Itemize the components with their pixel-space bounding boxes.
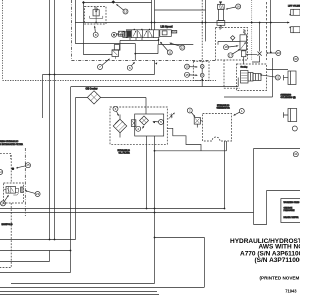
node dot bus — [251, 22, 253, 24]
wire dashed left boundary vertical — [2, 0, 4, 80]
wire cascade y272.8 — [0, 272, 71, 274]
wire dashed x11.2 — [10, 155, 12, 183]
wire bus y208.8 — [0, 208, 225, 210]
node dot — [158, 39, 160, 41]
node dot — [259, 22, 261, 24]
wire x75 down — [75, 98, 77, 240]
wire bottom y283.5 — [11, 283, 155, 285]
balloon 8 — [93, 26, 98, 38]
balloon 12 — [169, 43, 185, 51]
svg-text:RESS HYDRAULIC: RESS HYDRAULIC — [0, 140, 19, 143]
wire check valve stem — [201, 68, 203, 86]
svg-text:17: 17 — [229, 53, 233, 57]
balloon 16 — [226, 4, 241, 10]
svg-text:24: 24 — [1, 201, 5, 205]
loader valve symbol — [4, 187, 19, 196]
wire dash-dot boundary x71 — [71, 0, 73, 61]
balloon 13 — [116, 4, 128, 14]
wire dashed boundary horizontal y80 — [3, 80, 217, 82]
pump check valve — [140, 116, 149, 125]
svg-text:(S/N A3P711000: (S/N A3P711000 — [255, 257, 301, 264]
wire cascade y239 left — [0, 239, 76, 241]
balloon 15 — [185, 72, 198, 77]
steering cartridge valve — [241, 71, 262, 84]
pump inlet element — [131, 120, 136, 127]
lift speed section — [160, 26, 177, 37]
pump box — [135, 114, 164, 136]
wire vertical x83 corner y54 — [84, 3, 113, 55]
svg-text:Steering: Steering — [241, 66, 248, 69]
gauge symbol — [112, 32, 129, 38]
component 23 target — [21, 187, 23, 192]
wire corner y61.3 — [154, 61, 156, 75]
wire valve drains — [130, 38, 142, 41]
balloon 23 — [25, 190, 40, 196]
relief valve symbol — [90, 7, 103, 23]
balloon 1 — [233, 109, 244, 116]
wire box corner x75 top — [76, 0, 136, 44]
svg-text:GENERATOR: GENERATOR — [217, 107, 231, 110]
svg-text:21: 21 — [276, 76, 280, 80]
svg-text:OIL FILTER: OIL FILTER — [119, 152, 131, 154]
wire dashed x224 down — [223, 60, 225, 88]
svg-text:71943: 71943 — [285, 289, 297, 294]
wire y74.4 — [43, 74, 155, 76]
svg-text:12: 12 — [181, 46, 185, 50]
svg-text:22: 22 — [0, 170, 2, 174]
oil cooler symbol — [87, 91, 100, 104]
valve E lower body — [242, 51, 246, 57]
svg-text:DRAIN / RETUR: DRAIN / RETUR — [284, 216, 299, 219]
wire dash-dot x25.3 — [24, 148, 26, 216]
wire x70 down — [70, 87, 72, 273]
wire pump down legs — [147, 136, 155, 284]
svg-text:WORKING PRES: WORKING PRES — [284, 202, 301, 204]
filter symbol — [113, 115, 127, 138]
wire bottom y291.5 — [0, 291, 157, 293]
svg-text:30: 30 — [294, 57, 298, 61]
steering cylinder 2 — [284, 109, 297, 122]
node dots y74.4 — [49, 74, 51, 76]
svg-text:13: 13 — [124, 10, 128, 14]
svg-text:34: 34 — [294, 152, 298, 156]
balloon 31 partial — [292, 126, 297, 131]
valve assembly E spring — [240, 30, 247, 51]
wire cascade y237.6 right — [155, 238, 205, 288]
svg-text:LIFT CYLIND: LIFT CYLIND — [288, 5, 300, 7]
balloon 4 — [136, 126, 145, 132]
wire generator connections — [155, 141, 227, 151]
wire E connections — [218, 42, 257, 55]
wire dotted x251.7 — [251, 0, 253, 60]
wire bus y212.8 — [0, 212, 254, 214]
wire vertical bus V1 x49 — [49, 0, 51, 240]
svg-text:H INTEGRATED FILTER: H INTEGRATED FILTER — [0, 143, 23, 146]
wire x42.6 down — [42, 75, 44, 119]
dashed box around E — [216, 28, 248, 61]
balloon 10 — [185, 64, 198, 69]
balloon 24 — [1, 195, 9, 206]
balloon 3 — [113, 106, 119, 116]
svg-text:11: 11 — [168, 50, 171, 54]
wire verticals to valve — [152, 0, 155, 30]
wire x234 down — [237, 78, 239, 87]
lift cylinder 2 — [290, 27, 301, 33]
legend outer box — [254, 191, 301, 225]
hydraulic generator dashed box — [203, 114, 232, 141]
wire bottom y287.5 — [0, 287, 204, 289]
wire generator drain — [224, 141, 226, 209]
check valve diamond E — [231, 36, 235, 41]
wire cooler connections — [76, 98, 147, 115]
wire y44.8 to right — [159, 44, 194, 46]
main control valve block — [126, 30, 159, 38]
orifice dot component — [12, 167, 15, 170]
wire stepped grey — [167, 128, 201, 151]
svg-text:25: 25 — [26, 163, 30, 167]
balloon 17 — [228, 49, 241, 58]
svg-text:PRESSURE: PRESSURE — [284, 210, 296, 212]
svg-text:Oil Cooler: Oil Cooler — [86, 87, 98, 90]
svg-text:(PRINTED NOVEM: (PRINTED NOVEM — [260, 276, 300, 281]
balloon 7 — [98, 59, 111, 70]
title block text — [230, 238, 316, 294]
svg-text:23: 23 — [36, 192, 40, 196]
balloon 20 — [266, 51, 281, 56]
wire steering out — [267, 68, 289, 70]
wire y97 to steering — [224, 96, 273, 98]
wire cascade y250.3 — [0, 250, 71, 252]
valve component 7 — [112, 45, 120, 59]
wire verticals x201 x206 — [205, 0, 207, 41]
balloon 30 — [293, 57, 298, 62]
relief valve dashed box — [85, 7, 107, 25]
generator inlet valve — [194, 118, 202, 128]
check valve pair dashed box — [193, 61, 209, 80]
wire y86 bus — [71, 86, 238, 88]
valve left end attachment — [116, 31, 125, 36]
balloon 25 — [16, 163, 31, 169]
node dots buses — [146, 208, 148, 210]
balloon 21 — [260, 74, 281, 80]
wire dash-dot boundary y60.3 — [72, 60, 217, 62]
solenoid valve 16 — [217, 2, 225, 30]
svg-text:16: 16 — [237, 5, 241, 9]
wire dashed pilot x202.2 — [201, 0, 203, 65]
pump filter dashed box — [110, 107, 167, 144]
check valve lower — [200, 73, 204, 77]
wire steering drop — [272, 58, 274, 97]
legend table — [281, 199, 301, 223]
shutoff valve — [252, 23, 262, 63]
wire cascade y261.7 with jog — [0, 251, 50, 262]
wire bottom y294.5 — [0, 294, 159, 296]
wire y53.6 corner — [135, 44, 158, 61]
loader valve dashed box — [4, 183, 24, 203]
svg-text:Lift Speed: Lift Speed — [161, 26, 174, 29]
wire vertical bus V2 x54.7 — [54, 0, 56, 240]
balloon 11 — [160, 42, 172, 55]
wire right box x253 — [254, 149, 301, 213]
wire horizontal y2 — [84, 2, 152, 4]
wire horizontal y7 — [155, 9, 206, 11]
balloon 2 — [187, 108, 195, 117]
wire dashed link y88.2 — [224, 87, 240, 89]
steering cylinder 1 — [284, 71, 297, 85]
balloon 22 — [0, 170, 3, 175]
wire x271.7 — [270, 0, 272, 52]
svg-text:15: 15 — [185, 73, 189, 77]
dashed stub — [0, 153, 11, 159]
lift cylinder 1 — [290, 9, 301, 15]
balloon 5 — [153, 120, 164, 125]
svg-text:CYLINDERS (4): CYLINDERS (4) — [281, 96, 296, 99]
balloon 18 — [224, 45, 239, 50]
svg-text:20: 20 — [277, 51, 281, 55]
wire dashed x266 — [266, 2, 268, 60]
balloon 6 — [127, 62, 135, 70]
orifice symbol — [168, 113, 175, 120]
svg-text:10: 10 — [185, 65, 189, 69]
balloon 34 — [293, 152, 298, 157]
steering valve dashed box — [237, 64, 267, 91]
node junction diamond top — [112, 0, 116, 4]
wire top bus y21.3 — [75, 22, 289, 24]
svg-text:18: 18 — [224, 45, 228, 49]
check valve upper — [200, 65, 204, 69]
node junction x83.5 — [82, 1, 85, 4]
svg-text:MANIFOLD: MANIFOLD — [2, 223, 13, 226]
